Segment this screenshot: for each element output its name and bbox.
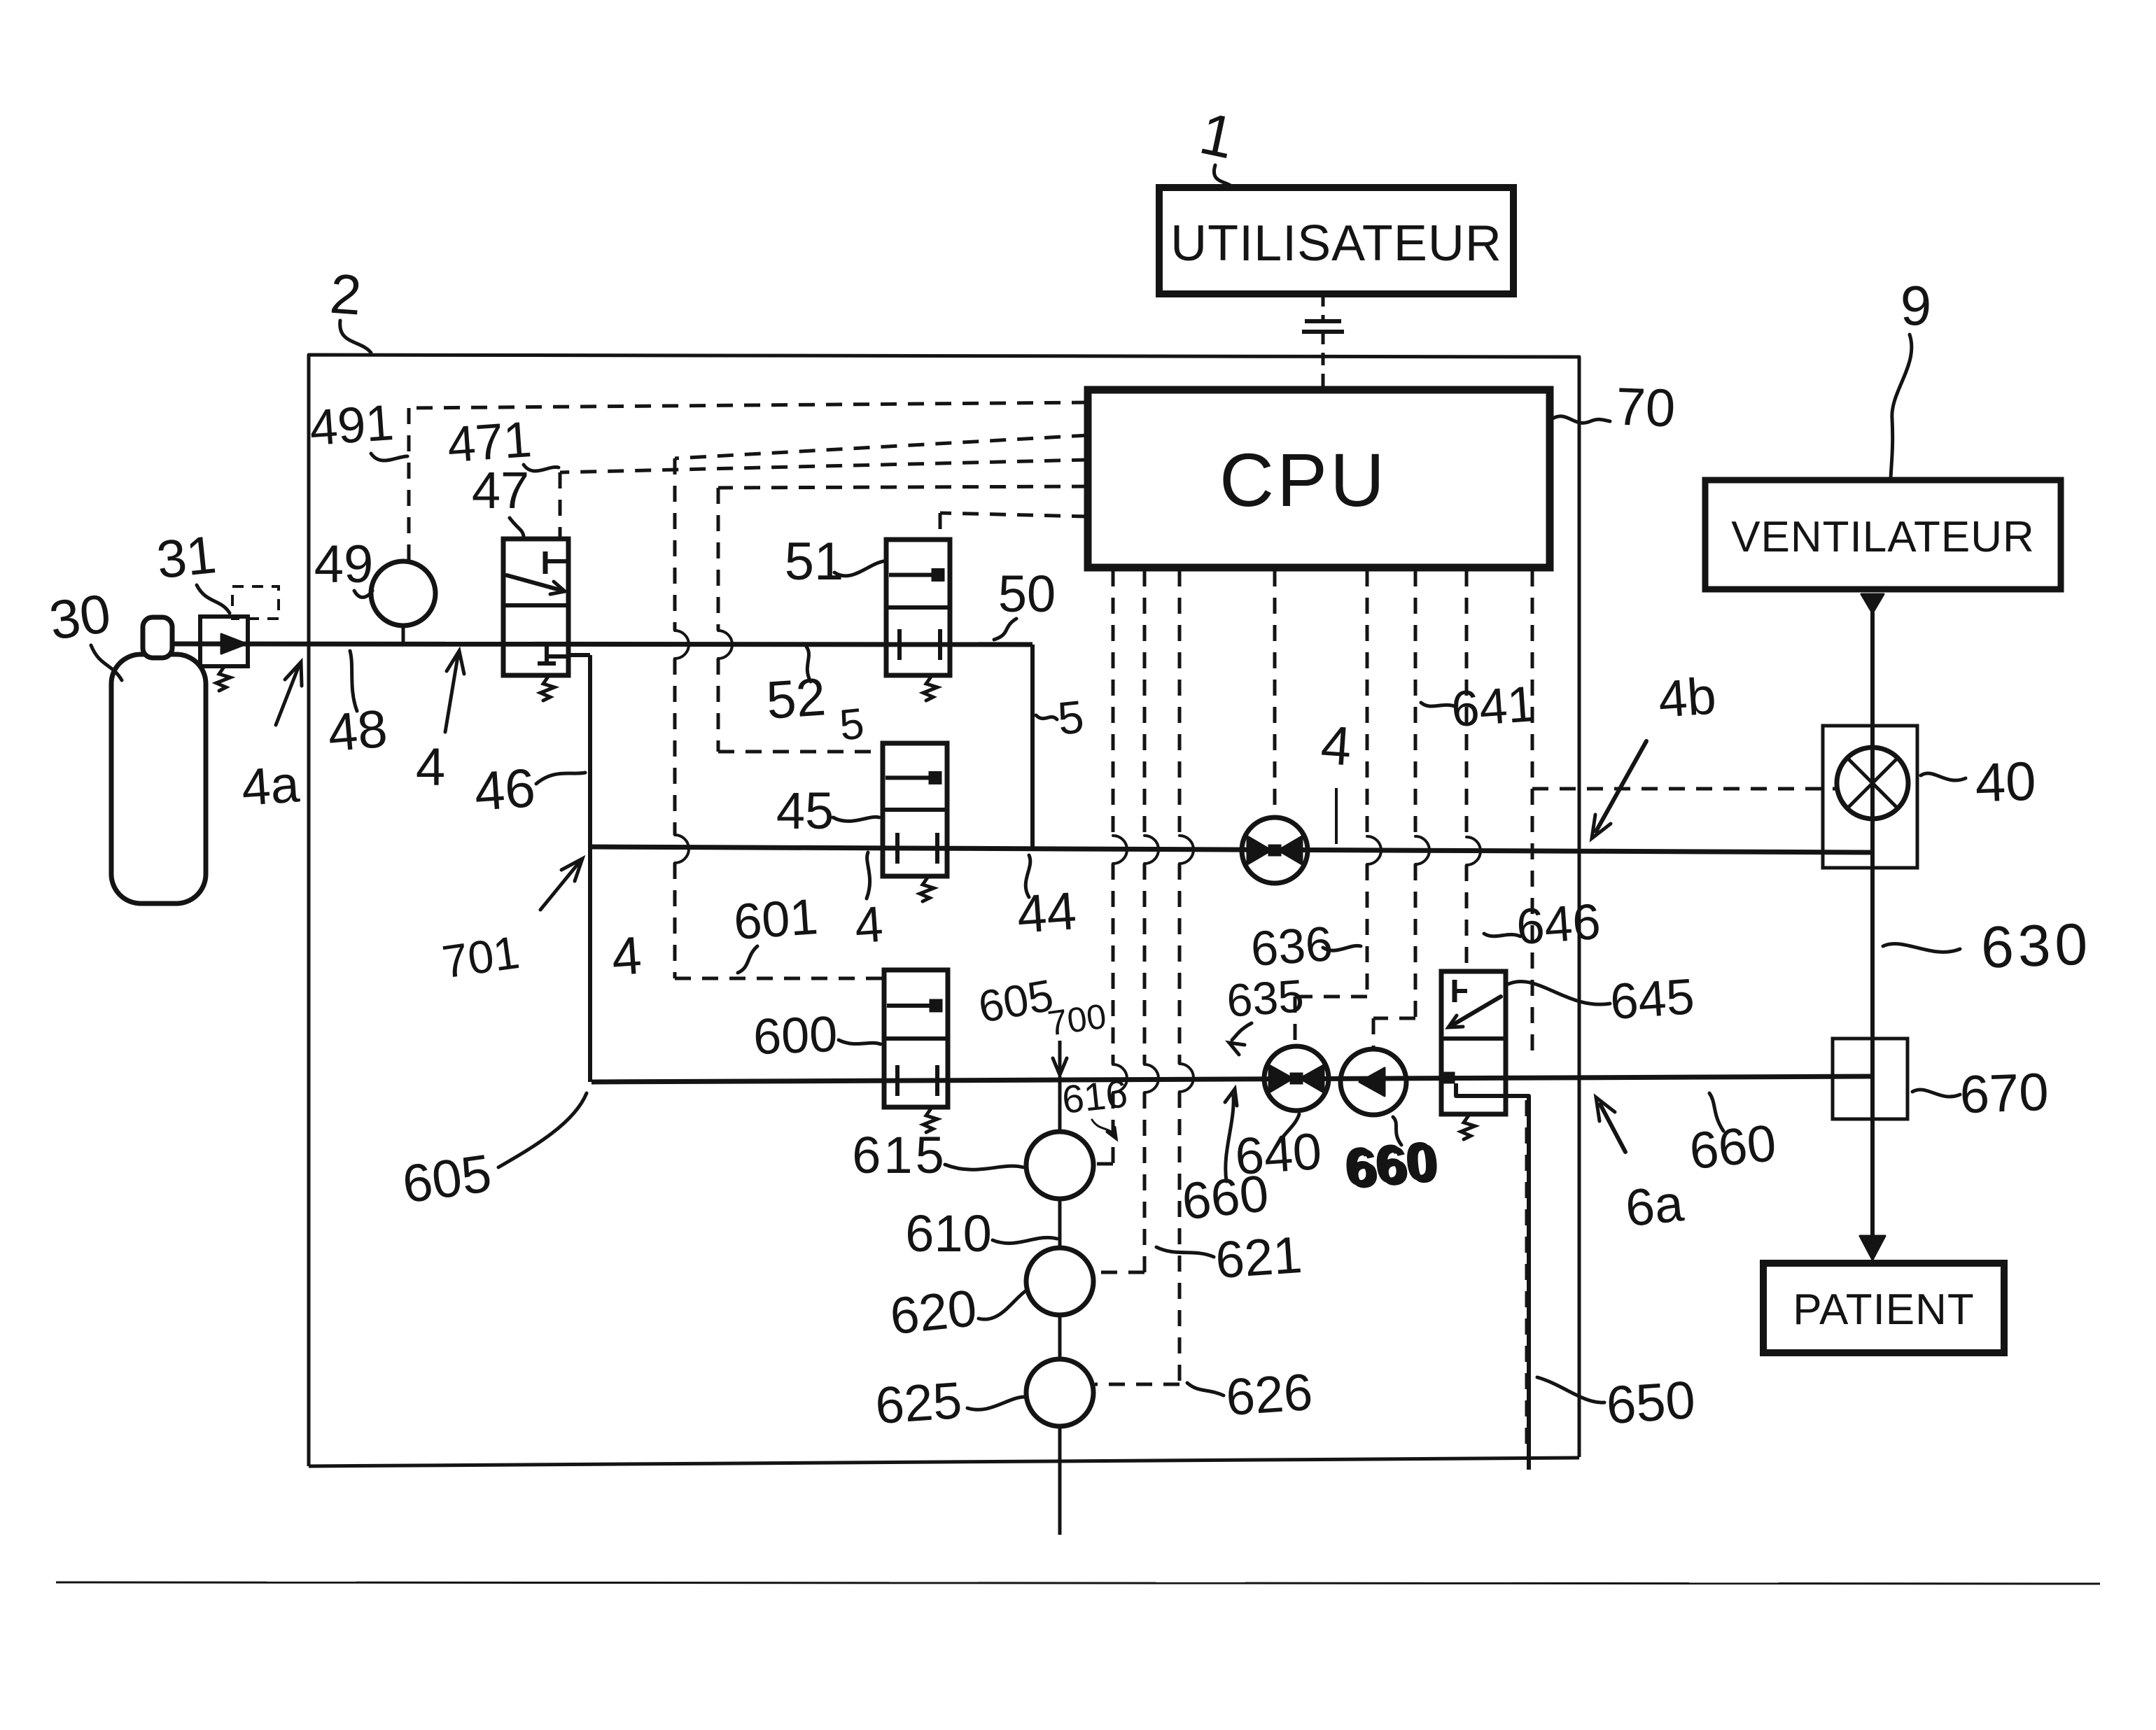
label 31 — [154, 525, 230, 613]
label 50 — [994, 565, 1056, 640]
label 605 big — [399, 1093, 587, 1215]
label 620 — [888, 1279, 1026, 1345]
control line 646 to valve 645 — [1466, 570, 1480, 970]
label 660 left — [1179, 1089, 1271, 1230]
control line 621 to sensor 620 — [1095, 570, 1158, 1272]
valve 600 body — [884, 970, 948, 1107]
svg-text:44: 44 — [1015, 881, 1078, 945]
label 636 — [1249, 916, 1361, 976]
label 626 — [1187, 1363, 1315, 1426]
label 45 — [776, 782, 879, 840]
enclosure box 2 outline — [309, 355, 1579, 1466]
svg-text:670: 670 — [1959, 1062, 2050, 1125]
spring of valve 47 — [540, 677, 554, 701]
control line to valve 44 — [1273, 570, 1277, 816]
svg-text:621: 621 — [1214, 1225, 1304, 1289]
arrow 700 into third line — [1053, 1041, 1067, 1075]
flow sensor 40 body — [1823, 726, 1917, 868]
wire sensor chain vertical — [1058, 1076, 1062, 1535]
label 660 bold — [1342, 1117, 1441, 1201]
gas bottle 30 — [111, 617, 206, 903]
svg-text:2: 2 — [328, 262, 364, 327]
svg-text:70: 70 — [1615, 377, 1676, 439]
box VENTILATEUR — [1705, 480, 2061, 589]
svg-text:700: 700 — [1045, 997, 1108, 1043]
label 660 right — [1687, 1093, 1779, 1180]
sensor 625 — [1026, 1359, 1093, 1426]
svg-text:4b: 4b — [1656, 666, 1718, 729]
svg-text:CPU: CPU — [1219, 437, 1387, 522]
label 40 — [1921, 750, 2037, 814]
sensor 620 — [1026, 1248, 1093, 1315]
svg-text:PATIENT: PATIENT — [1793, 1286, 1975, 1334]
metering valve 640 body — [1264, 1046, 1329, 1111]
sensor 615 — [1026, 1132, 1093, 1199]
svg-text:4: 4 — [416, 738, 445, 797]
svg-text:31: 31 — [154, 525, 219, 590]
box CPU — [1088, 390, 1550, 568]
svg-text:620: 620 — [888, 1279, 979, 1345]
control line to valve 51 — [940, 513, 1088, 538]
arrow 4b — [1592, 741, 1646, 838]
svg-text:5: 5 — [837, 699, 867, 750]
label 4 below 701 — [610, 926, 643, 987]
label 646 — [1484, 894, 1602, 955]
svg-text:9: 9 — [1900, 274, 1932, 337]
label 6a — [1623, 1174, 1686, 1237]
spring of valve 50 — [923, 677, 937, 701]
label 49 — [314, 535, 374, 598]
svg-text:615: 615 — [852, 1126, 946, 1184]
svg-text:4: 4 — [1319, 714, 1353, 778]
svg-text:616: 616 — [1060, 1071, 1130, 1121]
label 48 — [325, 651, 390, 764]
wire 650 drain from valve 645 — [1456, 1083, 1529, 1470]
svg-text:4: 4 — [610, 926, 643, 987]
svg-text:47: 47 — [472, 461, 529, 519]
box PATIENT — [1763, 1263, 2004, 1353]
svg-text:40: 40 — [1974, 750, 2037, 814]
label 640 — [1233, 1114, 1324, 1186]
page footer rule — [56, 1582, 2100, 1584]
svg-text:610: 610 — [905, 1204, 991, 1263]
control line 601 to valve 600 — [675, 435, 1088, 978]
wire 5 corner down from valve 50 — [1030, 645, 1035, 847]
label 701 — [439, 926, 522, 988]
label 51 — [785, 532, 883, 591]
label 605 at 700 — [974, 970, 1108, 1043]
svg-text:6a: 6a — [1623, 1174, 1686, 1237]
label 4 above 44 — [1319, 714, 1353, 844]
component 670 body — [1833, 1039, 1907, 1119]
label 616 — [1060, 1071, 1130, 1138]
svg-text:45: 45 — [776, 782, 834, 840]
label 625 — [874, 1371, 1025, 1435]
svg-text:51: 51 — [785, 532, 844, 591]
label 630 — [1883, 910, 2093, 980]
svg-text:645: 645 — [1609, 969, 1696, 1030]
label 4 near 47 — [416, 651, 464, 797]
label 670 — [1912, 1062, 2050, 1125]
label 47 — [472, 461, 529, 536]
arrow to node 701 — [540, 859, 582, 910]
label 610 — [905, 1204, 1057, 1263]
valve 45 body — [883, 743, 947, 876]
valve 47 body — [503, 539, 568, 675]
label 30 — [45, 582, 122, 680]
box UTILISATEUR — [1159, 188, 1513, 294]
spring of valve 31 — [216, 667, 230, 691]
svg-text:30: 30 — [45, 582, 114, 652]
svg-text:52: 52 — [764, 667, 827, 731]
control line 641-650 — [1527, 570, 1835, 1454]
wire second line 4 (to flow sensor 40) — [590, 847, 1871, 852]
svg-text:636: 636 — [1249, 916, 1334, 976]
control line 636 to valve 640 — [1295, 570, 1381, 1045]
valve 645 body — [1441, 971, 1506, 1114]
spring of valve 45 — [920, 878, 934, 901]
spring of valve 645 — [1461, 1116, 1475, 1139]
control line 471 to valve 47 — [560, 460, 1088, 537]
arrow below ventilateur — [1861, 594, 1884, 613]
svg-text:4: 4 — [853, 896, 885, 955]
svg-text:650: 650 — [1604, 1370, 1697, 1436]
label 491 — [308, 395, 407, 460]
svg-text:49: 49 — [314, 535, 374, 594]
label 52 — [764, 647, 827, 731]
label 600 — [752, 1006, 881, 1065]
wire main gas line 4 (bottle to valve 50) — [172, 644, 1032, 645]
valve 45 ports — [897, 833, 937, 864]
arrow into patient box — [1860, 1218, 1885, 1260]
solenoid dashed box above 31 — [232, 586, 279, 619]
link UTILISATEUR to CPU dashed — [1322, 294, 1325, 390]
svg-text:641: 641 — [1450, 676, 1537, 738]
label 5 at line 5 — [1036, 690, 1086, 744]
svg-text:601: 601 — [732, 889, 820, 950]
svg-text:4a: 4a — [239, 754, 302, 817]
wire third line 605-660 (to outlet 670) — [591, 1076, 1872, 1082]
label 4 right of 601 — [853, 852, 885, 954]
metering valve 44 body — [1242, 817, 1308, 883]
control line to pump 660 — [1373, 570, 1429, 1048]
valve 51-50 body — [886, 540, 950, 675]
svg-text:660: 660 — [1345, 1132, 1441, 1201]
valve 600 ports — [897, 1065, 937, 1096]
pressure regulator 31 body — [200, 617, 248, 666]
label 5 below 52 — [837, 699, 867, 750]
svg-text:5: 5 — [1055, 690, 1086, 744]
valve 50 ports — [899, 629, 940, 660]
control line 616 to sensor 615 — [1095, 570, 1127, 1164]
svg-text:600: 600 — [752, 1006, 839, 1065]
arrow 6a — [1596, 1097, 1625, 1152]
pressure gauge 49 — [371, 561, 435, 644]
label 9 — [1891, 274, 1931, 479]
control line 626 to sensor 625 — [1095, 570, 1193, 1384]
label 4b — [1656, 666, 1718, 729]
label 601 — [732, 889, 820, 973]
label 4a — [239, 662, 302, 817]
svg-text:50: 50 — [998, 565, 1056, 623]
svg-text:605: 605 — [399, 1144, 495, 1215]
label 1 — [1194, 100, 1240, 188]
svg-text:VENTILATEUR: VENTILATEUR — [1731, 513, 2035, 561]
valve 31 flow arrow — [221, 634, 246, 654]
svg-text:491: 491 — [308, 395, 395, 456]
svg-text:626: 626 — [1224, 1363, 1315, 1426]
svg-text:46: 46 — [472, 757, 538, 822]
valve 44 bowtie — [1247, 836, 1302, 864]
label 471 — [446, 412, 559, 473]
svg-text:630: 630 — [1980, 910, 2092, 980]
label 641 — [1421, 676, 1537, 738]
pump 660 body — [1340, 1049, 1406, 1115]
control line to valve 45 — [718, 486, 1088, 752]
label 635 — [1225, 969, 1305, 1055]
label 621 — [1156, 1225, 1304, 1289]
label 615 — [852, 1126, 1023, 1184]
svg-text:635: 635 — [1225, 969, 1305, 1027]
svg-text:625: 625 — [874, 1371, 964, 1435]
svg-text:660: 660 — [1687, 1113, 1779, 1180]
svg-text:701: 701 — [439, 926, 522, 988]
label 70 — [1553, 377, 1676, 439]
isolation symbol bars — [1302, 321, 1344, 332]
svg-text:UTILISATEUR: UTILISATEUR — [1170, 216, 1502, 272]
control line 491 to gauge 49 — [409, 402, 1088, 560]
wire 630 ventilator line vertical — [1870, 593, 1875, 1239]
svg-text:646: 646 — [1515, 894, 1602, 955]
label 650 — [1537, 1370, 1697, 1436]
label 645 — [1508, 969, 1696, 1030]
wire 46 from valve 47 to vertical — [568, 655, 590, 1082]
spring of valve 600 — [923, 1109, 937, 1132]
label 2 — [328, 262, 371, 353]
pump 660 triangle — [1359, 1068, 1385, 1096]
label 44 — [1015, 855, 1078, 945]
valve 640 bowtie — [1269, 1065, 1324, 1092]
label 46 — [472, 757, 585, 822]
